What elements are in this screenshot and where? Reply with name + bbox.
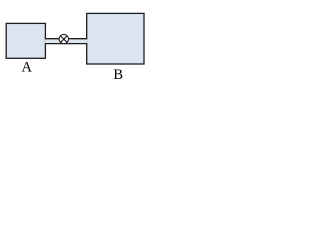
valve X stroke 2 — [61, 36, 67, 42]
vessel B — [87, 13, 144, 64]
svg-text:A: A — [22, 60, 33, 76]
valve circle — [59, 34, 68, 43]
tube bottom wall — [45, 43, 86, 45]
vessel A — [6, 23, 45, 58]
svg-text:B: B — [113, 67, 123, 83]
valve X stroke 1 — [61, 36, 67, 42]
background — [0, 0, 176, 103]
tube fill (opens into A and B) — [45, 39, 88, 43]
tube top wall — [45, 38, 86, 40]
